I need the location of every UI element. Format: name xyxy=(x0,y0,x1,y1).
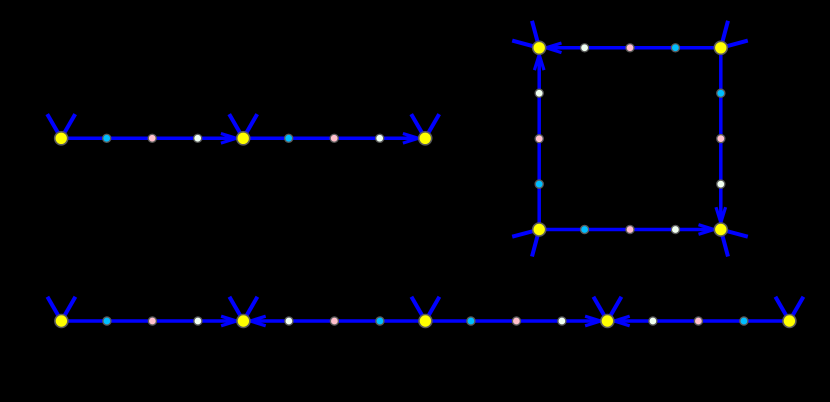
token honeydew on edge B1->B2 xyxy=(194,317,202,325)
token honeydew on edge S3->S4 xyxy=(671,225,679,233)
token pink on edge B5->B4 xyxy=(694,317,702,325)
half-edge stub left at B5 xyxy=(775,297,788,320)
node B4 (bottom chain) xyxy=(601,315,614,328)
edge B5->B4 xyxy=(607,319,789,323)
token deepskyblue on edge B5->B4 xyxy=(740,317,748,325)
edge T1->T2 xyxy=(61,137,243,141)
node B3 (bottom chain) xyxy=(419,315,432,328)
token deepskyblue on edge B3->B2 xyxy=(376,317,384,325)
token honeydew on edge T1->T2 xyxy=(194,134,202,142)
token deepskyblue on edge S3->S4 xyxy=(581,225,589,233)
node T3 (top chain) xyxy=(419,132,432,145)
edge B3->B4 xyxy=(425,319,607,323)
token honeydew on edge T2->T3 xyxy=(376,134,384,142)
half-edge stub left at T1 xyxy=(47,114,60,137)
arrowhead into S1 xyxy=(534,55,544,70)
half-edge stub right at B4 xyxy=(608,297,621,320)
node B1 (bottom chain) xyxy=(55,315,68,328)
half-edge stub down at S4 xyxy=(721,231,728,256)
token pink on edge S3->S1 xyxy=(535,135,543,143)
token deepskyblue on edge S3->S1 xyxy=(535,180,543,188)
half-edge stub right at B3 xyxy=(426,297,439,320)
half-edge stub left at B2 xyxy=(229,297,242,320)
token deepskyblue on edge T1->T2 xyxy=(103,134,111,142)
edge B1->B2 xyxy=(61,319,243,323)
arrowhead into T2 xyxy=(221,134,236,144)
half-edge stub left at B1 xyxy=(47,297,60,320)
half-edge stub up at S2 xyxy=(721,21,728,46)
token honeydew on edge B5->B4 xyxy=(649,317,657,325)
half-edge stub left at T2 xyxy=(229,114,242,137)
token honeydew on edge B3->B4 xyxy=(558,317,566,325)
arrowhead into S4 xyxy=(699,225,714,235)
token honeydew on edge S2->S1 xyxy=(581,44,589,52)
edge S2->S1 xyxy=(539,46,721,50)
half-edge stub left at B3 xyxy=(411,297,424,320)
half-edge stub right at B2 xyxy=(244,297,257,320)
arrowhead into B4 xyxy=(614,316,629,326)
node B2 (bottom chain) xyxy=(237,315,250,328)
edge S3->S4 xyxy=(539,228,721,232)
arrowhead into B4 xyxy=(585,316,600,326)
half-edge stub right at S2 xyxy=(723,41,748,48)
node S2 (square top-right) xyxy=(714,41,727,54)
token deepskyblue on edge S2->S1 xyxy=(671,44,679,52)
half-edge stub left at B4 xyxy=(593,297,606,320)
token pink on edge T2->T3 xyxy=(330,134,338,142)
token deepskyblue on edge S2->S4 xyxy=(717,89,725,97)
edge B3->B2 xyxy=(243,319,425,323)
half-edge stub right at B5 xyxy=(790,297,803,320)
token pink on edge T1->T2 xyxy=(148,134,156,142)
token deepskyblue on edge T2->T3 xyxy=(285,134,293,142)
half-edge stub left at S1 xyxy=(512,41,537,48)
edge S3->S1 xyxy=(537,48,541,230)
token pink on edge B3->B2 xyxy=(330,317,338,325)
token honeydew on edge B3->B2 xyxy=(285,317,293,325)
node T1 (top chain) xyxy=(55,132,68,145)
half-edge stub up at S1 xyxy=(532,21,539,46)
edge T2->T3 xyxy=(243,137,425,141)
arrowhead into B2 xyxy=(250,316,265,326)
half-edge stub right at T2 xyxy=(244,114,257,137)
half-edge stub right at T1 xyxy=(62,114,75,137)
token pink on edge S3->S4 xyxy=(626,225,634,233)
arrowhead into S4 xyxy=(716,207,726,222)
node S1 (square top-left) xyxy=(533,41,546,54)
node T2 (top chain) xyxy=(237,132,250,145)
node S4 (square bottom-right) xyxy=(714,223,727,236)
arrowhead into B2 xyxy=(221,316,236,326)
token deepskyblue on edge B3->B4 xyxy=(467,317,475,325)
half-edge stub left at T3 xyxy=(411,114,424,137)
arrowhead into S1 xyxy=(546,43,561,53)
arrowhead into T3 xyxy=(403,134,418,144)
token honeydew on edge S3->S1 xyxy=(535,89,543,97)
token pink on edge B1->B2 xyxy=(148,317,156,325)
half-edge stub right at B1 xyxy=(62,297,75,320)
half-edge stub right at S4 xyxy=(723,230,748,237)
token pink on edge S2->S4 xyxy=(717,135,725,143)
node S3 (square bottom-left) xyxy=(533,223,546,236)
half-edge stub right at T3 xyxy=(426,114,439,137)
token honeydew on edge S2->S4 xyxy=(717,180,725,188)
node B5 (bottom chain) xyxy=(783,315,796,328)
token pink on edge B3->B4 xyxy=(512,317,520,325)
half-edge stub down at S3 xyxy=(532,231,539,256)
token pink on edge S2->S1 xyxy=(626,44,634,52)
edge S2->S4 xyxy=(719,48,723,230)
half-edge stub left at S3 xyxy=(512,230,537,237)
token deepskyblue on edge B1->B2 xyxy=(103,317,111,325)
